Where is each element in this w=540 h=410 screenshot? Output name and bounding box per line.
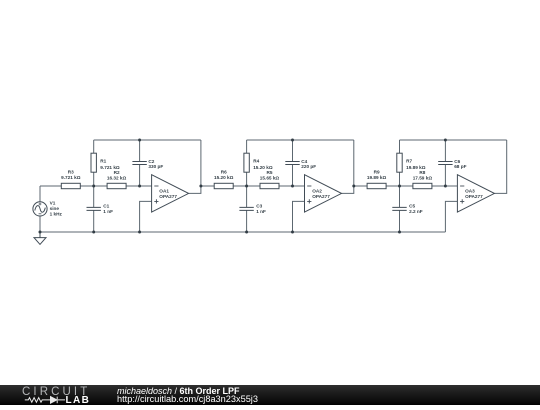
capacitor C4 xyxy=(285,162,299,165)
wire: stage3 C5 stems xyxy=(399,186,401,232)
resistor R4 xyxy=(244,153,249,172)
capacitor C3 xyxy=(239,207,253,210)
wire: stage1 C1 stems xyxy=(93,186,95,232)
node: V1 ground junction xyxy=(39,231,42,234)
wire: stage1 to stage2 signal xyxy=(201,185,305,187)
capacitor C6 xyxy=(438,162,452,165)
svg-text:9.721 kΩ: 9.721 kΩ xyxy=(61,175,81,180)
svg-text:OA2: OA2 xyxy=(312,189,322,194)
svg-text:C4: C4 xyxy=(301,159,307,164)
svg-text:R6: R6 xyxy=(221,169,227,174)
resistor R5 xyxy=(260,183,279,188)
node A3 xyxy=(398,185,401,188)
resistor R9 xyxy=(367,183,386,188)
node: C4 top xyxy=(291,139,294,142)
wire: stage3 output xyxy=(494,140,506,193)
resistor R1 xyxy=(91,153,96,172)
wire: stage1 C2 stems xyxy=(139,140,141,186)
node: stage2 inverting input xyxy=(291,185,294,188)
node: C3 to rail xyxy=(245,231,248,234)
CircuitLab logo xyxy=(0,385,110,405)
wire: stage1 top feedback xyxy=(94,139,201,141)
op-amp OA2 xyxy=(305,175,342,212)
wire: stage2 to stage3 signal xyxy=(354,185,458,187)
svg-text:1 nF: 1 nF xyxy=(256,209,266,214)
node: stage3 inverting input xyxy=(444,185,447,188)
svg-text:V1: V1 xyxy=(50,201,56,206)
svg-text:R3: R3 xyxy=(68,169,74,174)
wire: stage2 output xyxy=(342,140,354,193)
node: C2 top xyxy=(138,139,141,142)
svg-text:15.65 kΩ: 15.65 kΩ xyxy=(260,175,280,180)
node A2 xyxy=(245,185,248,188)
capacitor C5 xyxy=(392,207,406,210)
resistor R8 xyxy=(413,183,432,188)
wire: stage1 R1 vertical stems xyxy=(93,140,95,186)
wire: stage3 top feedback xyxy=(400,139,507,141)
svg-text:sine: sine xyxy=(50,206,60,211)
svg-text:OA1: OA1 xyxy=(159,189,169,194)
resistor R6 xyxy=(214,183,233,188)
node: stage2 plus wire to rail xyxy=(291,231,294,234)
node: C6 top xyxy=(444,139,447,142)
op-amp OA3 xyxy=(457,175,494,212)
resistor R7 xyxy=(397,153,402,172)
svg-text:OPA277: OPA277 xyxy=(312,194,330,199)
svg-text:C2: C2 xyxy=(148,159,154,164)
node: stage1 output xyxy=(199,185,202,188)
svg-text:LAB: LAB xyxy=(66,395,91,405)
svg-text:220 pF: 220 pF xyxy=(301,164,316,169)
svg-text:OA3: OA3 xyxy=(465,189,475,194)
node A1 xyxy=(92,185,95,188)
svg-text:1 nF: 1 nF xyxy=(103,209,113,214)
wire: stage3 plus input to rail xyxy=(445,201,457,232)
wire: stage3 R7 vertical stems xyxy=(399,140,401,186)
svg-text:330 pF: 330 pF xyxy=(148,164,163,169)
svg-text:68 pF: 68 pF xyxy=(454,164,466,169)
svg-text:17.59 kΩ: 17.59 kΩ xyxy=(413,175,433,180)
wire: stage2 C4 stems xyxy=(292,140,294,186)
wire: stage2 R4 vertical stems xyxy=(246,140,248,186)
svg-text:OPA277: OPA277 xyxy=(465,194,483,199)
svg-text:19.89 kΩ: 19.89 kΩ xyxy=(367,175,387,180)
wire: stage1 output xyxy=(189,140,201,193)
wire: V1 bottom to rail xyxy=(39,216,41,232)
svg-text:16.32 kΩ: 16.32 kΩ xyxy=(107,175,127,180)
voltage source V1 xyxy=(33,202,47,216)
svg-text:R4: R4 xyxy=(253,159,259,164)
node: stage2 output xyxy=(352,185,355,188)
resistor R2 xyxy=(107,183,126,188)
capacitor C1 xyxy=(87,207,101,210)
resistor R3 xyxy=(61,183,80,188)
svg-text:R1: R1 xyxy=(100,159,106,164)
node: C5 to rail xyxy=(398,231,401,234)
wire: stage2 top feedback xyxy=(247,139,354,141)
wire: V1 top xyxy=(39,186,41,202)
wire: stage1 plus input to rail xyxy=(140,201,152,232)
node: stage1 plus wire to rail xyxy=(138,231,141,234)
svg-text:15.20 kΩ: 15.20 kΩ xyxy=(214,175,234,180)
wire: ground rail xyxy=(40,231,445,233)
footer bar xyxy=(0,385,540,405)
node: C1 to rail xyxy=(92,231,95,234)
svg-text:OPA277: OPA277 xyxy=(159,194,177,199)
op-amp OA1 xyxy=(152,175,189,212)
svg-text:R9: R9 xyxy=(374,169,380,174)
wire: stage2 plus input to rail xyxy=(293,201,305,232)
ground xyxy=(34,232,46,244)
footer text xyxy=(117,386,240,396)
capacitor C2 xyxy=(132,162,146,165)
wire: stage3 C6 stems xyxy=(444,140,446,186)
wire: stage2 C3 stems xyxy=(246,186,248,232)
svg-text:1 kHz: 1 kHz xyxy=(50,212,63,217)
svg-text:C5: C5 xyxy=(409,204,415,209)
wire: stage1 main signal line xyxy=(40,185,152,187)
node: stage1 inverting input xyxy=(138,185,141,188)
svg-text:2.2 nF: 2.2 nF xyxy=(409,209,423,214)
svg-text:R7: R7 xyxy=(406,159,412,164)
svg-text:C3: C3 xyxy=(256,204,262,209)
svg-text:C6: C6 xyxy=(454,159,460,164)
svg-text:C1: C1 xyxy=(103,204,109,209)
